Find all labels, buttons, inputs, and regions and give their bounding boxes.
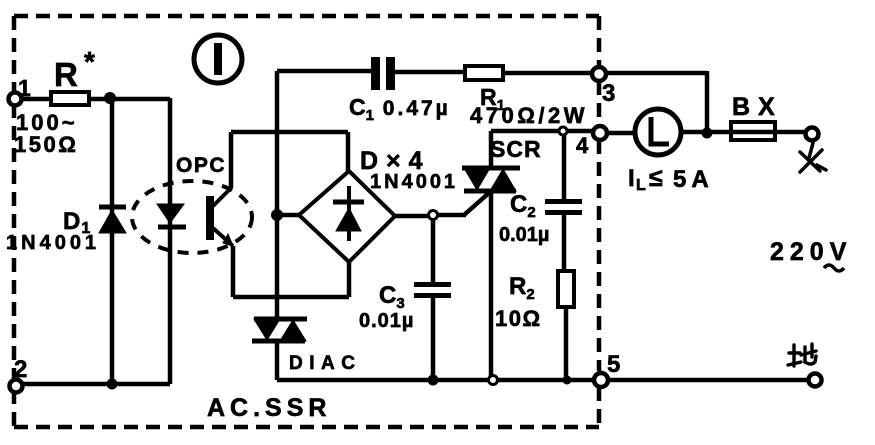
svg-text:1N4001: 1N4001	[370, 171, 458, 193]
svg-text:10Ω: 10Ω	[495, 306, 542, 331]
svg-text:L: L	[636, 177, 646, 194]
svg-text:5: 5	[607, 351, 620, 378]
svg-text:220V: 220V	[770, 238, 852, 266]
svg-text:R: R	[54, 56, 78, 93]
svg-text:0.01µ: 0.01µ	[359, 310, 414, 332]
svg-text:3: 3	[602, 80, 615, 107]
svg-text:5A: 5A	[673, 166, 714, 193]
svg-text:DIAC: DIAC	[289, 353, 361, 374]
svg-text:BX: BX	[732, 93, 783, 121]
svg-text:0.01µ: 0.01µ	[499, 224, 549, 246]
svg-text:*: *	[84, 46, 95, 77]
svg-text:AC.SSR: AC.SSR	[207, 394, 331, 422]
svg-text:1: 1	[18, 75, 31, 101]
svg-text:I: I	[628, 165, 635, 192]
svg-text:C1 0.47µ: C1 0.47µ	[349, 94, 451, 124]
svg-text:2: 2	[14, 356, 27, 383]
svg-text:150Ω: 150Ω	[14, 132, 78, 157]
svg-text:4: 4	[576, 133, 589, 158]
svg-text:≤: ≤	[649, 164, 663, 192]
svg-text:1N4001: 1N4001	[6, 232, 100, 254]
svg-text:OPC: OPC	[176, 154, 226, 177]
svg-text:SCR: SCR	[490, 136, 542, 162]
svg-text:470Ω/2W: 470Ω/2W	[470, 103, 588, 128]
